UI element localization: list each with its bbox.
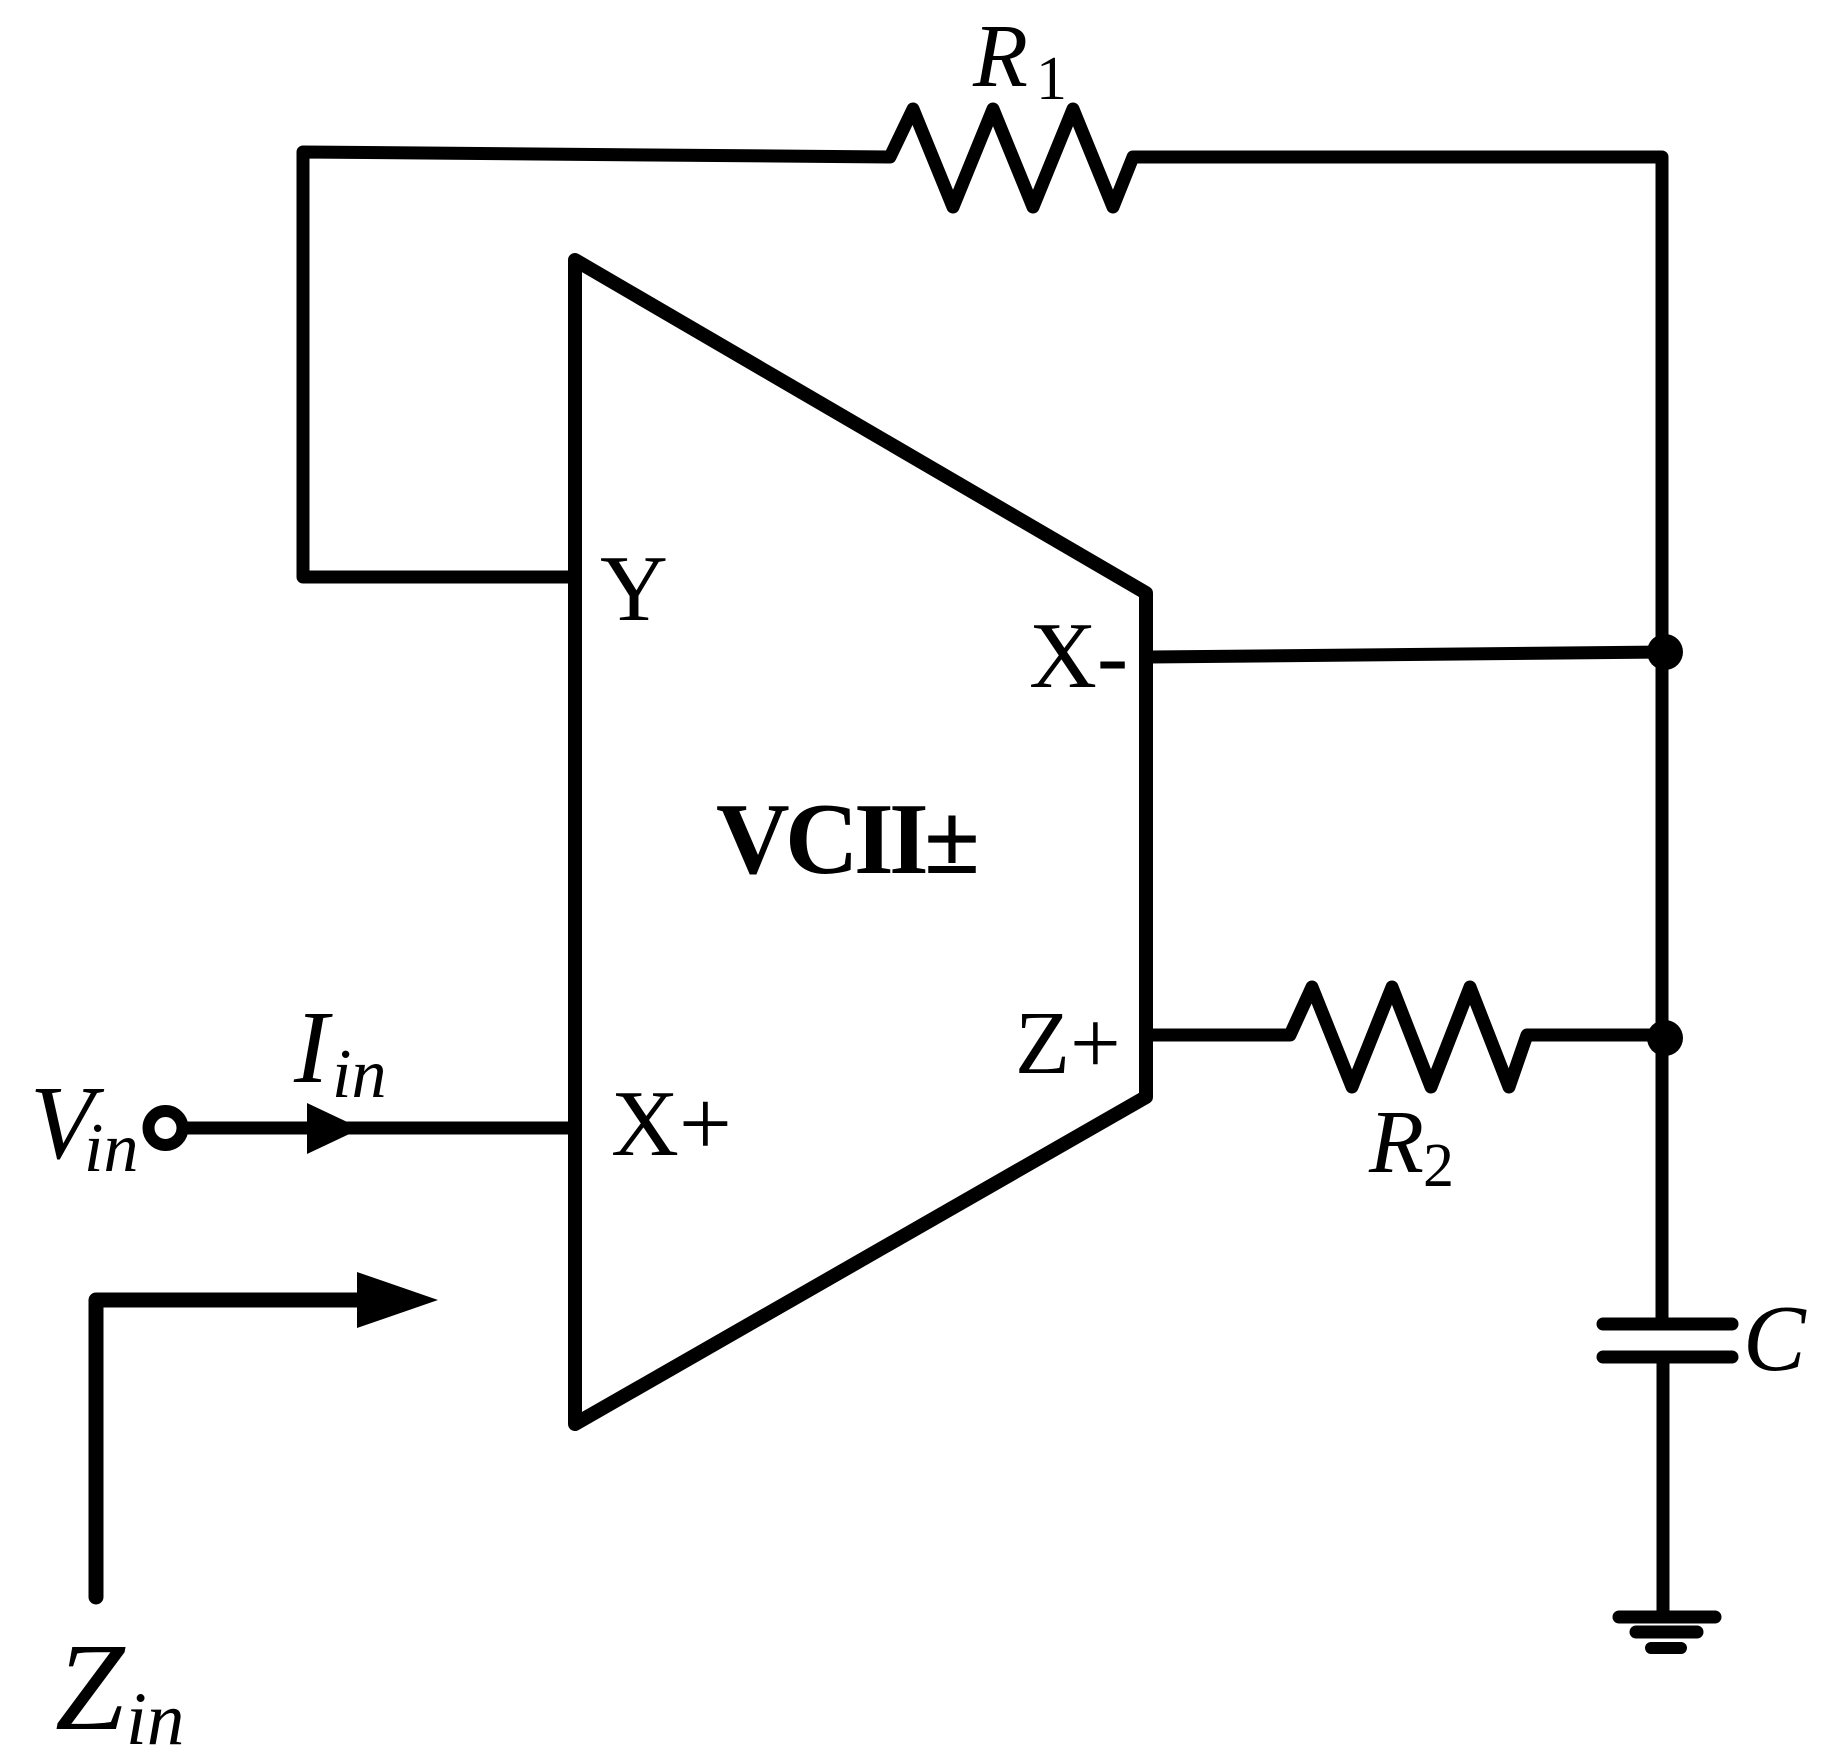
- svg-text:Z+: Z+: [1015, 994, 1121, 1093]
- svg-text:C: C: [1743, 1287, 1807, 1391]
- svg-text:Z: Z: [55, 1619, 126, 1757]
- svg-text:X+: X+: [611, 1072, 732, 1176]
- svg-text:in: in: [84, 1110, 138, 1187]
- svg-text:I: I: [293, 990, 333, 1105]
- svg-text:VCII±: VCII±: [716, 783, 980, 896]
- svg-text:R: R: [1368, 1093, 1424, 1192]
- svg-text:R: R: [972, 7, 1028, 106]
- svg-text:in: in: [332, 1036, 386, 1113]
- svg-text:2: 2: [1423, 1132, 1454, 1200]
- svg-text:Y: Y: [600, 537, 668, 641]
- svg-text:1: 1: [1036, 45, 1067, 113]
- svg-text:in: in: [126, 1678, 184, 1760]
- svg-text:X-: X-: [1029, 604, 1128, 708]
